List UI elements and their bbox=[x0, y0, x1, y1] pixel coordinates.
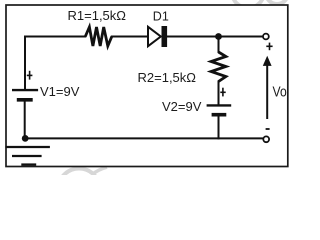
svg-text:D1: D1 bbox=[153, 10, 169, 24]
svg-text:Vo: Vo bbox=[273, 84, 287, 100]
svg-text:R1=1,5kΩ: R1=1,5kΩ bbox=[68, 8, 127, 23]
svg-text:V2=9V: V2=9V bbox=[162, 99, 202, 114]
svg-text:V1=9V: V1=9V bbox=[40, 84, 80, 99]
svg-text:R2=1,5kΩ: R2=1,5kΩ bbox=[138, 70, 197, 85]
